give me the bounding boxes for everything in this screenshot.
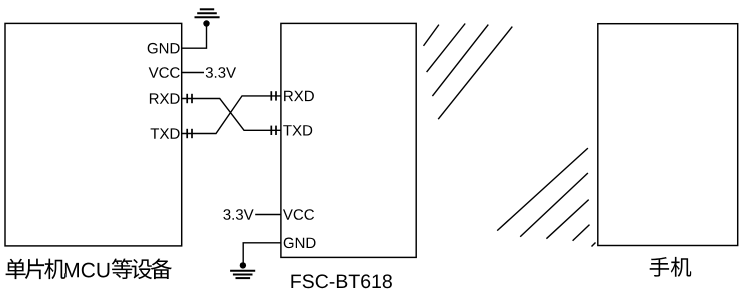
RF link hatch, lower group line 3 xyxy=(546,200,588,239)
RF link hatch, lower group line 1 xyxy=(497,148,588,231)
wire MCU RXD to BT618 TXD (crossover) xyxy=(182,99,281,131)
RF link hatch, upper group line 3 xyxy=(432,25,488,97)
RF link hatch, upper group line 2 xyxy=(427,24,466,73)
device label 手机 xyxy=(650,257,692,277)
RF link hatch, upper group line 4 xyxy=(438,27,512,120)
pin label TXD (BT618) xyxy=(283,125,312,135)
RF link hatch, lower group line 5 xyxy=(592,243,596,247)
RF link hatch, lower group line 4 xyxy=(573,225,590,241)
net label 3.3V (BT618 side) xyxy=(223,209,253,220)
wire MCU GND up to ground symbol xyxy=(182,26,207,49)
pin ticks RXD (BT618) xyxy=(271,91,276,100)
pin label GND (MCU) xyxy=(148,43,180,54)
mobile phone block xyxy=(598,24,738,246)
pin label VCC (BT618) xyxy=(283,209,314,220)
wire MCU TXD to BT618 RXD (crossover) xyxy=(182,96,281,134)
junction dot on ground wire xyxy=(203,20,209,26)
FSC-BT618 module block xyxy=(281,23,416,257)
pin label VCC (MCU) xyxy=(149,67,180,78)
RF link hatch, lower group line 2 xyxy=(520,173,588,237)
net label 3.3V (MCU side) xyxy=(206,67,236,78)
pin ticks TXD (BT618) xyxy=(271,126,276,135)
device label 单片机MCU等设备 xyxy=(6,259,172,280)
ground (earth) symbol top, pointing up xyxy=(195,9,220,17)
ground (earth) symbol bottom xyxy=(230,271,255,278)
pin ticks TXD (MCU) xyxy=(187,129,192,138)
wire MCU VCC to 3.3V net xyxy=(182,72,204,74)
junction dot on BT618 ground wire xyxy=(240,262,246,268)
pin label RXD (BT618) xyxy=(284,91,314,101)
MCU host device block xyxy=(5,23,182,246)
pin label TXD (MCU) xyxy=(151,128,180,138)
module name label FSC-BT618 xyxy=(291,274,392,288)
wire BT618 GND down to ground symbol xyxy=(243,243,281,264)
pin label RXD (MCU) xyxy=(150,93,180,103)
RF link hatch, upper group line 1 xyxy=(424,25,439,46)
pin label GND (BT618) xyxy=(284,238,316,249)
wire 3.3V to BT618 VCC xyxy=(255,214,281,216)
pin ticks RXD (MCU) xyxy=(187,94,192,103)
